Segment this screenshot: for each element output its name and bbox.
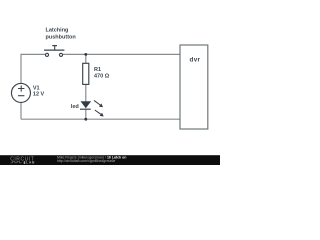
wire: resistor bottom to LED top bbox=[85, 84, 87, 101]
wire: left vertical from V1 bottom to bottom wire bbox=[20, 102, 22, 119]
dvr box (subcircuit) bbox=[180, 45, 208, 129]
pushbutton SW1: contact bar bbox=[44, 49, 64, 51]
LED D1 triangle bbox=[81, 102, 90, 108]
LED emission arrow 1 bbox=[94, 100, 103, 107]
pushbutton SW1: actuator cap bbox=[52, 45, 57, 47]
footer bar bbox=[0, 155, 220, 165]
wire: resistor branch top stub bbox=[85, 54, 87, 63]
svg-text:R1: R1 bbox=[94, 67, 101, 73]
V1 plus sign bbox=[18, 86, 24, 92]
svg-text:Latching: Latching bbox=[46, 28, 69, 34]
wire: LED cathode to bottom wire bbox=[85, 109, 87, 119]
svg-text:http://circuitlab.com/cgvd5bzd: http://circuitlab.com/cgvd5bzdgvrsz6e bbox=[57, 159, 115, 163]
pushbutton SW1 latching: left terminal bbox=[45, 53, 48, 56]
V1 minus sign bbox=[18, 95, 24, 97]
voltage source V1 body bbox=[11, 83, 30, 102]
footer CircuitLab logo: waveform bbox=[11, 161, 22, 163]
wire: bottom horizontal from left leg to dvr box bbox=[21, 118, 180, 120]
svg-text:470 Ω: 470 Ω bbox=[94, 74, 110, 80]
svg-text:▮LAB: ▮LAB bbox=[24, 160, 36, 164]
wire: top-left horizontal from V1 branch to pushbutton left terminal bbox=[21, 53, 45, 55]
svg-text:led: led bbox=[71, 104, 79, 110]
svg-text:dvr: dvr bbox=[190, 56, 201, 63]
node junction top (resistor branch) bbox=[84, 53, 87, 56]
wire: top horizontal from pushbutton right terminal to dvr box bbox=[63, 53, 180, 55]
resistor R1 body bbox=[83, 63, 89, 84]
wire: left vertical from top wire down to V1 top bbox=[20, 54, 22, 84]
svg-text:pushbutton: pushbutton bbox=[46, 34, 77, 40]
pushbutton SW1: actuator stem bbox=[54, 46, 56, 51]
svg-text:12 V: 12 V bbox=[33, 92, 45, 98]
LED emission arrow 2 bbox=[95, 110, 104, 117]
pushbutton SW1 latching: right terminal bbox=[59, 53, 62, 56]
LED cathode bar bbox=[80, 108, 91, 110]
node junction bottom (LED to bottom wire) bbox=[84, 118, 87, 121]
